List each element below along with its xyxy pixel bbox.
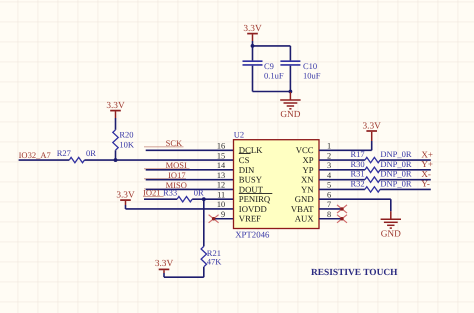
wire [164, 276, 204, 278]
svg-text:MOSI: MOSI [166, 160, 187, 170]
wire [126, 208, 234, 210]
IC U2 body [234, 140, 320, 229]
svg-text:C9: C9 [264, 61, 274, 71]
svg-text:DOUT: DOUT [239, 184, 264, 194]
wire [146, 179, 234, 181]
svg-text:VCC: VCC [296, 145, 314, 155]
wire [319, 169, 365, 171]
resistor R32 [365, 187, 380, 192]
svg-text:X+: X+ [421, 149, 433, 159]
svg-text:6: 6 [327, 190, 331, 199]
svg-text:DNP_0R: DNP_0R [380, 178, 412, 188]
resistor R17 [365, 157, 380, 162]
wire [289, 66, 291, 92]
svg-text:10K: 10K [119, 140, 134, 150]
wire [192, 198, 233, 200]
svg-text:GND: GND [381, 230, 401, 240]
svg-text:VREF: VREF [239, 214, 261, 224]
wire [289, 46, 291, 61]
svg-text:5: 5 [327, 181, 331, 190]
wire [319, 179, 365, 181]
resistor R27 [69, 157, 84, 162]
svg-text:IO32_A7: IO32_A7 [19, 150, 51, 160]
wire [319, 159, 365, 161]
svg-text:GND: GND [280, 110, 300, 120]
resistor R21 [201, 246, 206, 266]
svg-text:IOVDD: IOVDD [239, 204, 267, 214]
wire [203, 267, 205, 277]
resistor R30 [365, 167, 380, 172]
power 3.3V (VCC) [366, 130, 377, 132]
svg-text:10: 10 [217, 200, 225, 209]
wire [115, 118, 117, 130]
wire [319, 198, 391, 200]
ground (pin 6) [390, 211, 392, 219]
wire [380, 188, 431, 190]
svg-text:3.3V: 3.3V [116, 190, 135, 200]
svg-text:R20: R20 [119, 130, 133, 140]
wire [214, 218, 234, 220]
wire [253, 45, 291, 47]
wire [125, 205, 127, 209]
no-connect pin 9 [209, 215, 219, 223]
svg-text:VBAT: VBAT [291, 204, 314, 214]
wire [144, 198, 177, 200]
wire [252, 41, 254, 46]
svg-text:YP: YP [302, 165, 313, 175]
svg-text:3.3V: 3.3V [155, 259, 174, 269]
wire [380, 169, 431, 171]
svg-text:Y-: Y- [421, 179, 430, 189]
wire [84, 159, 233, 161]
svg-text:R27: R27 [57, 148, 71, 158]
power 3.3V (IOVDD) [120, 199, 131, 201]
svg-text:DNP_0R: DNP_0R [380, 159, 412, 169]
svg-text:7: 7 [327, 200, 331, 209]
svg-text:11: 11 [217, 190, 225, 199]
svg-text:DNP_0R: DNP_0R [380, 169, 412, 179]
svg-text:C10: C10 [303, 61, 317, 71]
svg-text:XP: XP [302, 155, 313, 165]
svg-text:8: 8 [327, 210, 331, 219]
svg-text:R33: R33 [163, 187, 177, 197]
svg-text:1: 1 [327, 142, 331, 151]
svg-text:PENIRQ: PENIRQ [239, 194, 271, 204]
svg-text:3.3V: 3.3V [106, 101, 125, 111]
svg-text:IO17: IO17 [168, 170, 185, 180]
wire [19, 159, 70, 161]
wire [319, 188, 365, 190]
svg-text:10uF: 10uF [303, 70, 321, 80]
wire [146, 188, 234, 190]
svg-text:9: 9 [221, 210, 225, 219]
svg-text:R30: R30 [351, 159, 365, 169]
svg-text:2: 2 [327, 151, 331, 160]
svg-text:13: 13 [217, 171, 225, 180]
svg-text:0R: 0R [86, 148, 96, 158]
ground (capacitors) [289, 92, 291, 100]
power 3.3V (R21) [159, 268, 170, 270]
svg-text:GND: GND [295, 194, 314, 204]
svg-text:0R: 0R [194, 187, 204, 197]
svg-text:DIN: DIN [239, 165, 255, 175]
no-connect pin 7 [337, 205, 347, 213]
wire [371, 141, 373, 150]
wire [163, 273, 165, 277]
svg-text:3.3V: 3.3V [243, 24, 262, 34]
svg-text:U2: U2 [234, 130, 244, 140]
svg-text:XN: XN [301, 175, 314, 185]
power 3.3V (capacitor rail) [247, 33, 258, 35]
resistor R31 [365, 177, 380, 182]
capacitor C10 [280, 60, 300, 62]
svg-text:RESISTIVE TOUCH: RESISTIVE TOUCH [311, 268, 398, 278]
svg-text:14: 14 [217, 161, 226, 170]
svg-text:X-: X- [421, 169, 431, 179]
svg-text:16: 16 [217, 142, 225, 151]
svg-text:BUSY: BUSY [239, 175, 263, 185]
svg-text:YN: YN [301, 184, 314, 194]
svg-text:3: 3 [327, 161, 331, 170]
wire [319, 149, 372, 151]
svg-text:CS: CS [239, 155, 250, 165]
wire [380, 179, 431, 181]
node PENIRQ junction [202, 197, 206, 201]
resistor R20 [113, 130, 118, 150]
svg-text:R17: R17 [351, 149, 365, 159]
wire [319, 218, 342, 220]
node R20/CS junction [114, 158, 118, 162]
svg-text:R31: R31 [351, 169, 365, 179]
resistor R33 [177, 197, 192, 202]
svg-text:12: 12 [217, 181, 225, 190]
capacitor C9 [243, 60, 263, 62]
svg-text:R32: R32 [351, 178, 365, 188]
svg-text:DNP_0R: DNP_0R [380, 149, 412, 159]
wire [115, 150, 117, 160]
svg-text:47K: 47K [207, 257, 223, 267]
wire [146, 169, 234, 171]
svg-text:AUX: AUX [295, 214, 315, 224]
svg-text:3.3V: 3.3V [363, 122, 382, 132]
svg-text:0.1uF: 0.1uF [264, 70, 284, 80]
wire [390, 199, 392, 211]
wire [253, 91, 291, 93]
wire [203, 199, 205, 246]
wire [252, 46, 254, 61]
svg-text:Y+: Y+ [421, 159, 433, 169]
node cap-rail junction [251, 44, 255, 48]
node cap-gnd junction [289, 90, 293, 94]
wire [380, 159, 431, 161]
wire [146, 149, 234, 151]
wire [252, 66, 254, 92]
no-connect pin 8 [337, 215, 347, 223]
wire [319, 208, 342, 210]
svg-text:XPT2046: XPT2046 [235, 230, 270, 240]
svg-text:15: 15 [217, 151, 225, 160]
power 3.3V (R20) [110, 110, 121, 112]
